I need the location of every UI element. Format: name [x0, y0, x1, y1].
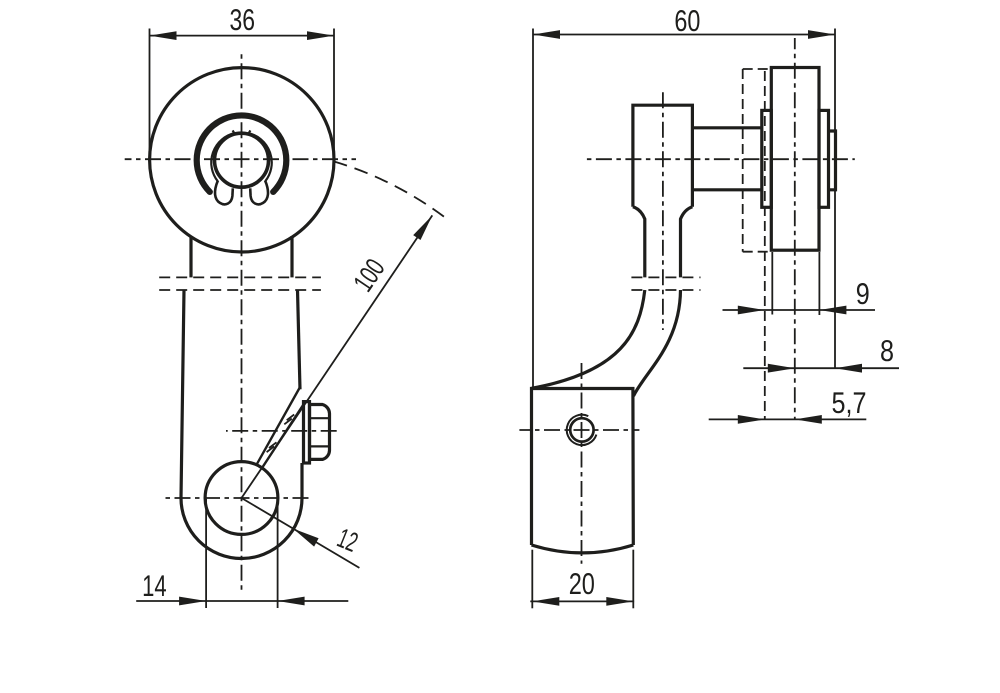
svg-text:8: 8 — [880, 335, 894, 368]
svg-text:20: 20 — [569, 568, 595, 601]
svg-text:5,7: 5,7 — [832, 387, 867, 420]
svg-text:36: 36 — [229, 4, 255, 37]
svg-text:9: 9 — [856, 278, 870, 311]
svg-text:14: 14 — [142, 570, 167, 603]
svg-text:60: 60 — [674, 5, 700, 38]
